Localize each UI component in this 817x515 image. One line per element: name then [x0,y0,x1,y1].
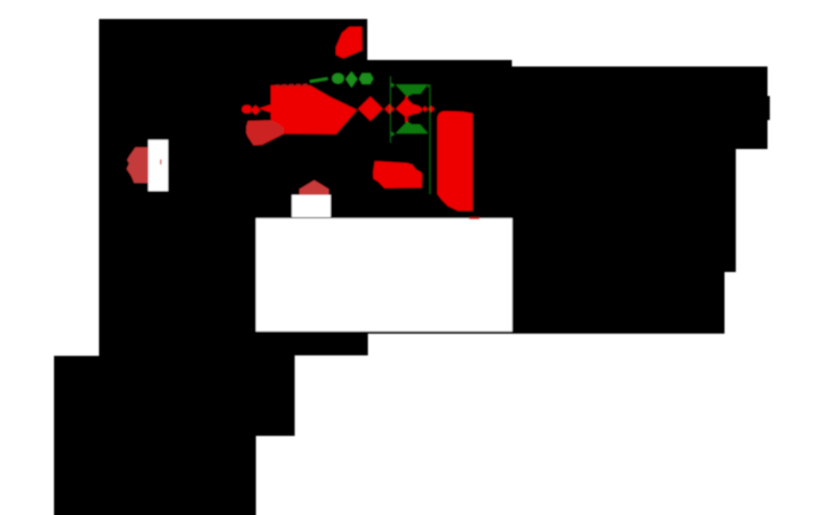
red polygon P1 (top leaf) [336,27,362,58]
red diamond small mid [385,104,395,114]
crimson house marker [300,180,329,195]
white tooltip panel [256,218,512,331]
white label box mid [292,195,331,217]
dark red polygon P3 (southwest blob) [246,120,284,145]
red polygon P4 (mid blob) [373,161,422,188]
green pole east [429,87,431,194]
green pole west [390,76,392,142]
red diamond tiny east 1 [422,106,428,112]
red diamond large [358,97,382,121]
green flag SW [391,131,395,137]
green triangle north (pointing down) [396,85,428,97]
green hexagon marker [359,73,373,84]
green nub NE [427,85,430,88]
red dash on tooltip top [469,217,479,219]
red diamond tiny east 2 [428,106,434,112]
red tick in label box [160,159,162,164]
white label box west [148,140,168,191]
crimson hexagon marker west [127,147,152,183]
green triangle south (pointing up) [396,122,428,134]
green ellipse marker [332,73,344,83]
red bar polygon (east vertical) [438,111,473,211]
green flag NW [391,83,395,88]
red diamond with east bulge [396,97,422,122]
dark hatch dashes on P2 north edge [275,85,310,86]
red ellipse marker [242,105,252,113]
green diamond marker [346,72,358,88]
red diamond marker small west [251,105,260,114]
red polygon P2 (large west mass) [259,86,357,135]
green polyline (northern route) [310,79,328,82]
